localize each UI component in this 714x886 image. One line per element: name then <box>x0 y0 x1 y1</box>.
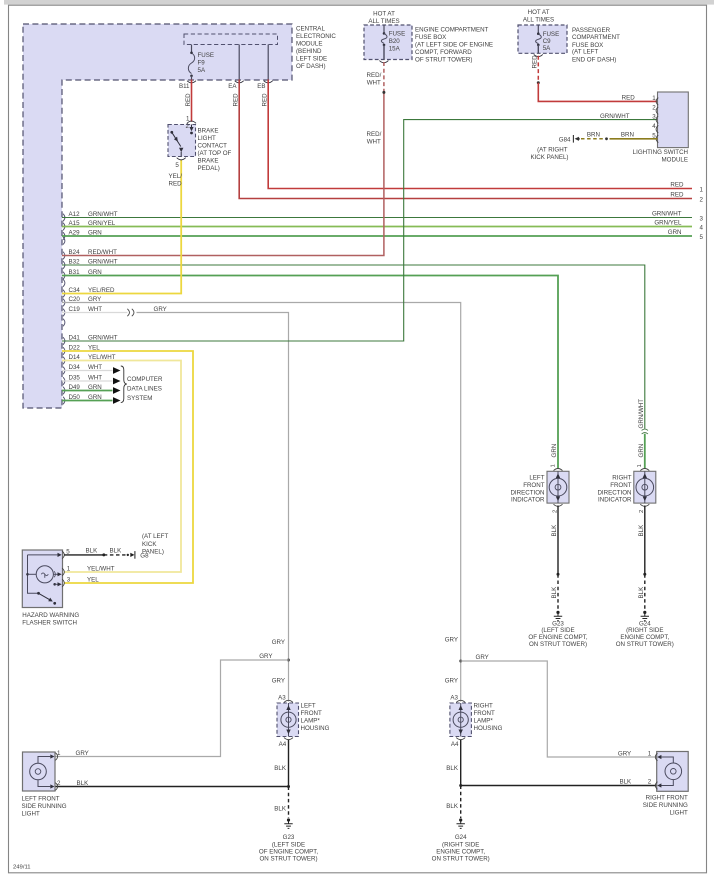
svg-text:FUSE: FUSE <box>543 31 560 38</box>
left front direction indicator name label <box>510 474 545 503</box>
svg-text:RED: RED <box>622 95 636 102</box>
right running light pin 1 arc and labels <box>618 751 658 761</box>
svg-text:LIGHT: LIGHT <box>198 135 216 142</box>
hazard switch indicator lamp <box>26 566 53 583</box>
CEM pin D49 arc <box>63 387 65 395</box>
left running light pin 1 arc and labels <box>55 750 88 760</box>
wire C19 GRY to left front lamp housing <box>137 313 289 702</box>
svg-text:BLK: BLK <box>446 803 459 810</box>
svg-text:YEL/WHT: YEL/WHT <box>88 354 116 361</box>
svg-text:A3: A3 <box>450 695 458 702</box>
wire EB RED down and right to page connector 1 <box>268 80 692 189</box>
svg-text:GRY: GRY <box>272 678 285 685</box>
svg-text:DATA LINES: DATA LINES <box>127 386 162 393</box>
svg-text:BLK: BLK <box>619 779 632 786</box>
right front lamp housing bulb <box>453 703 468 737</box>
svg-text:GRY: GRY <box>476 654 489 661</box>
svg-text:G84: G84 <box>559 136 571 143</box>
wire D41 GRN/WHT to lighting switch module pin 3 <box>62 120 658 341</box>
fuse C9 5A symbol <box>536 25 542 53</box>
svg-text:(LEFT SIDE: (LEFT SIDE <box>272 841 305 848</box>
CEM pin A29 arc <box>63 232 65 240</box>
wire BRN solid from lighting switch pin 5 <box>610 138 658 140</box>
svg-text:D41: D41 <box>69 334 81 341</box>
CEM internal wire to fuse F9 <box>191 45 193 53</box>
wire BLK from left lamp housing <box>56 740 289 787</box>
svg-text:FUSE: FUSE <box>389 31 406 38</box>
svg-text:LEFT: LEFT <box>529 474 544 481</box>
fuse F9 symbol <box>188 52 194 80</box>
svg-text:LIGHT: LIGHT <box>670 810 688 817</box>
right front side running light body <box>657 752 689 792</box>
splice on left indicator BLK <box>557 573 560 576</box>
svg-text:HOT AT: HOT AT <box>528 9 550 16</box>
svg-text:GRN: GRN <box>668 229 682 236</box>
svg-text:EA: EA <box>228 83 237 90</box>
svg-text:FUSE BOX: FUSE BOX <box>415 34 446 41</box>
svg-text:(RIGHT SIDE: (RIGHT SIDE <box>626 627 663 634</box>
svg-text:RED: RED <box>169 180 183 187</box>
svg-text:CENTRAL: CENTRAL <box>296 26 325 33</box>
right front lamp housing body <box>450 703 472 737</box>
passenger compartment fuse box body <box>518 25 567 53</box>
svg-text:OF ENGINE COMPT,: OF ENGINE COMPT, <box>528 634 587 641</box>
svg-text:3: 3 <box>67 577 71 584</box>
ground G24 label (right lamp) <box>432 834 490 862</box>
svg-text:BRAKE: BRAKE <box>198 128 219 135</box>
svg-text:5: 5 <box>700 234 704 241</box>
svg-text:GRN/WHT: GRN/WHT <box>652 211 682 218</box>
wire BLK dashed to G24 (right lamp) <box>460 786 462 819</box>
svg-text:RED/WHT: RED/WHT <box>88 249 117 256</box>
wire D34 arrow <box>113 367 121 374</box>
svg-text:RED: RED <box>262 93 269 107</box>
pin B11 exit arc <box>187 81 196 83</box>
svg-text:ENGINE COMPT,: ENGINE COMPT, <box>436 849 485 856</box>
svg-text:PASSENGER: PASSENGER <box>572 27 611 34</box>
computer data lines brace <box>121 366 127 403</box>
wire break symbol (right indicator feed) <box>642 429 648 434</box>
svg-text:COMPUTER: COMPUTER <box>127 376 163 383</box>
svg-text:BLK: BLK <box>551 586 558 599</box>
ground G24 label (right indicator) <box>616 621 674 648</box>
svg-text:ELECTRONIC: ELECTRONIC <box>296 33 336 40</box>
left front lamp housing bulb <box>281 703 296 737</box>
svg-text:C20: C20 <box>69 296 81 303</box>
lighting switch pin 4 <box>652 123 658 133</box>
svg-text:1: 1 <box>550 464 556 467</box>
brake light contact switch arm <box>170 131 183 157</box>
wire D50 arrow <box>113 397 121 404</box>
svg-text:BLK: BLK <box>86 548 99 555</box>
hazard switch arm <box>37 592 56 605</box>
brake light contact name label <box>198 128 232 173</box>
svg-text:A12: A12 <box>69 211 81 218</box>
fuse C9 value label <box>543 31 560 52</box>
splice on right lamp housing BLK <box>459 784 462 787</box>
splice on hazard BLK wire <box>102 553 105 556</box>
svg-text:BLK: BLK <box>274 805 287 812</box>
lighting switch module body <box>658 92 689 148</box>
svg-text:PEDAL): PEDAL) <box>198 165 220 172</box>
svg-text:YEL/WHT: YEL/WHT <box>87 565 115 572</box>
svg-text:GRN/WHT: GRN/WHT <box>638 399 645 429</box>
svg-text:RED/: RED/ <box>367 72 382 79</box>
wire BLK from right lamp housing <box>461 740 657 786</box>
CEM pin D34 arc <box>63 367 65 375</box>
svg-text:FRONT: FRONT <box>301 710 323 717</box>
CEM pin B24 arc <box>63 252 65 260</box>
svg-text:1: 1 <box>637 464 643 467</box>
svg-text:INDICATOR: INDICATOR <box>598 497 632 504</box>
svg-text:GRN/YEL: GRN/YEL <box>88 220 116 227</box>
right front direction indicator pin 1 entry arc <box>637 464 649 470</box>
computer data lines system label <box>127 376 163 402</box>
svg-text:EB: EB <box>257 83 265 90</box>
wire D49 GRN data line <box>62 390 113 392</box>
wire B32 GRN/WHT to right front direction indicator <box>62 265 645 429</box>
svg-text:2: 2 <box>700 196 704 203</box>
wire C34 YEL/RED from brake light contact <box>62 160 181 294</box>
svg-text:GRY: GRY <box>618 751 631 758</box>
wire RED to lighting switch module pin 1 <box>538 83 657 102</box>
hot at all times label (passenger fuse box) <box>523 9 554 24</box>
svg-text:LAMP*: LAMP* <box>474 718 494 725</box>
svg-text:ON STRUT TOWER): ON STRUT TOWER) <box>529 641 587 648</box>
splice on BRN wire <box>605 137 608 140</box>
svg-text:G23: G23 <box>283 834 295 841</box>
svg-text:15A: 15A <box>389 45 401 52</box>
CEM pin D14 arc <box>63 357 65 365</box>
lighting switch pin 3 <box>652 113 658 123</box>
wire RED dashed from passenger fuse box <box>537 56 539 83</box>
hazard switch pin 1 arc and number <box>62 566 71 576</box>
right front direction indicator bulb <box>636 471 654 503</box>
CEM unused pin arc C <box>63 319 65 327</box>
splice on RED wire <box>537 81 540 84</box>
svg-text:GRY: GRY <box>88 296 101 303</box>
fuse B20 15A symbol <box>381 25 387 60</box>
svg-text:RED: RED <box>532 55 539 69</box>
svg-text:5: 5 <box>175 162 179 169</box>
wire D34 WHT data line <box>62 370 113 372</box>
right front lamp housing pin A4 <box>451 738 465 748</box>
svg-text:G8: G8 <box>140 553 149 560</box>
wire BLK from left indicator <box>557 506 559 575</box>
wire BLK dashed to G24 <box>644 574 646 610</box>
left front direction indicator pin 2 exit arc <box>552 504 562 513</box>
lighting switch pin 5 <box>652 133 658 143</box>
svg-text:LIGHTING SWITCH: LIGHTING SWITCH <box>633 149 688 156</box>
wire GRN to right indicator <box>644 434 646 469</box>
lighting switch pin 2 <box>652 104 658 114</box>
svg-text:GRY: GRY <box>445 637 458 644</box>
svg-text:ON STRUT TOWER): ON STRUT TOWER) <box>259 856 317 863</box>
wire C19 WHT stub <box>62 312 128 314</box>
svg-text:YEL/RED: YEL/RED <box>88 287 115 294</box>
svg-text:C19: C19 <box>69 306 81 313</box>
svg-text:INDICATOR: INDICATOR <box>511 497 545 504</box>
svg-text:1: 1 <box>67 566 71 573</box>
ground connector G84 symbol <box>573 135 579 143</box>
svg-text:A3: A3 <box>278 695 286 702</box>
CEM unused pin arc B <box>63 279 65 287</box>
svg-text:COMPT, FORWARD: COMPT, FORWARD <box>415 49 472 56</box>
svg-text:B11: B11 <box>179 83 190 90</box>
svg-text:ON STRUT TOWER): ON STRUT TOWER) <box>616 641 674 648</box>
svg-text:5A: 5A <box>198 67 206 74</box>
svg-text:FRONT: FRONT <box>610 482 632 489</box>
pin EA exit arc <box>235 81 244 83</box>
wire A12 GRN/WHT to page connector 3 <box>62 217 692 219</box>
svg-text:2: 2 <box>186 123 190 130</box>
pin EB exit arc <box>264 81 273 83</box>
svg-text:BRAKE: BRAKE <box>198 158 219 165</box>
svg-text:CONTACT: CONTACT <box>198 143 228 150</box>
wire A15 GRN/YEL to page connector 4 <box>62 226 692 228</box>
CEM internal wire EA <box>238 45 240 80</box>
svg-text:FRONT: FRONT <box>474 710 496 717</box>
svg-text:ALL TIMES: ALL TIMES <box>523 16 554 23</box>
ground G23 label (left indicator) <box>528 621 587 648</box>
svg-text:ON STRUT TOWER): ON STRUT TOWER) <box>432 856 490 863</box>
svg-text:4: 4 <box>652 123 656 130</box>
svg-text:BLK: BLK <box>638 586 645 599</box>
left front side running light body <box>23 752 56 791</box>
wire BLK dashed to G23 (left lamp) <box>288 787 290 819</box>
svg-text:(RIGHT SIDE: (RIGHT SIDE <box>442 841 479 848</box>
engine compartment fuse box body <box>364 25 412 60</box>
svg-text:1: 1 <box>700 186 704 193</box>
svg-text:LEFT SIDE: LEFT SIDE <box>296 56 327 63</box>
svg-text:MODULE: MODULE <box>296 41 322 48</box>
svg-text:BLK: BLK <box>446 765 459 772</box>
svg-text:(AT RIGHT: (AT RIGHT <box>537 147 568 154</box>
CEM pin C20 arc <box>63 299 65 307</box>
svg-text:GRY: GRY <box>445 678 458 685</box>
lighting switch module name label <box>633 149 688 164</box>
right front direction indicator body <box>634 471 656 503</box>
splice on C20 GRY wire (right branch) <box>459 660 462 663</box>
svg-text:GRN/YEL: GRN/YEL <box>654 220 682 227</box>
splice on RED/WHT wire <box>382 91 385 94</box>
svg-text:A4: A4 <box>451 741 459 748</box>
svg-text:(LEFT SIDE: (LEFT SIDE <box>541 627 574 634</box>
svg-text:FLASHER SWITCH: FLASHER SWITCH <box>22 619 77 626</box>
ground G24 symbol (right lamp) <box>457 818 465 828</box>
right front direction indicator name label <box>597 474 632 503</box>
svg-text:ALL TIMES: ALL TIMES <box>368 18 399 25</box>
right front direction indicator pin 2 exit arc <box>639 504 649 513</box>
wire D50 GRN data line <box>62 400 113 402</box>
hazard switch pin 3 arc and number <box>62 577 71 587</box>
svg-text:GRN: GRN <box>88 269 102 276</box>
engine fuse box exit arc <box>379 61 388 63</box>
CEM pin C19 arc <box>63 309 65 317</box>
brake light contact pin 2 internal lead <box>189 125 193 135</box>
left front direction indicator body <box>547 471 569 503</box>
left front lamp housing name label <box>301 703 330 733</box>
CEM pin B31 arc <box>63 272 65 280</box>
svg-text:RED/: RED/ <box>367 131 382 138</box>
svg-text:GRN/WHT: GRN/WHT <box>88 334 118 341</box>
svg-text:SYSTEM: SYSTEM <box>127 395 152 402</box>
passenger compartment fuse box name label <box>572 27 620 64</box>
svg-text:GRN/WHT: GRN/WHT <box>88 211 118 218</box>
svg-text:2: 2 <box>57 780 61 787</box>
svg-text:BLK: BLK <box>638 524 645 537</box>
svg-text:GRY: GRY <box>259 653 272 660</box>
svg-text:3: 3 <box>700 215 704 222</box>
wire BLK from hazard switch pin 5 <box>64 554 104 556</box>
CEM pin A12 arc <box>63 214 65 222</box>
svg-text:BLK: BLK <box>274 765 287 772</box>
svg-text:LAMP*: LAMP* <box>301 718 321 725</box>
svg-text:BLK: BLK <box>77 780 90 787</box>
CEM unused pin arc A <box>63 237 65 245</box>
svg-text:GRN: GRN <box>551 444 558 458</box>
svg-text:SIDE RUNNING: SIDE RUNNING <box>22 803 67 810</box>
svg-text:BRN: BRN <box>587 132 600 139</box>
svg-text:HOT AT: HOT AT <box>373 10 395 17</box>
svg-text:HAZARD WARNING: HAZARD WARNING <box>22 612 79 619</box>
svg-text:249/11: 249/11 <box>13 865 31 871</box>
wire GRY branch to left running light <box>56 660 289 757</box>
wire BRN dashed segment <box>581 138 605 140</box>
CEM pin A15 arc <box>63 223 65 231</box>
passenger fuse box exit arc <box>534 54 543 56</box>
wire label RED/WHT lower <box>367 131 382 146</box>
brake contact pin 2 entry arc <box>187 121 196 123</box>
svg-text:FUSE: FUSE <box>198 52 215 59</box>
brake light contact pin 5 exit arc <box>177 158 186 160</box>
left front side running light bulb <box>30 754 55 788</box>
left front lamp housing pin A4 <box>279 738 293 748</box>
wire D35 arrow <box>113 378 121 385</box>
svg-text:END OF DASH): END OF DASH) <box>572 56 616 63</box>
svg-text:(AT TOP OF: (AT TOP OF <box>198 150 232 157</box>
right running light pin 2 arc and labels <box>619 779 657 790</box>
fuse B20 value label <box>389 31 406 53</box>
svg-text:YEL: YEL <box>88 344 100 351</box>
svg-text:2: 2 <box>652 104 656 111</box>
svg-text:(AT LEFT: (AT LEFT <box>142 533 168 540</box>
svg-text:GRN: GRN <box>88 384 102 391</box>
svg-text:GRN: GRN <box>88 394 102 401</box>
svg-text:RED: RED <box>185 93 192 107</box>
svg-text:YEL: YEL <box>87 576 99 583</box>
wire B24 RED/WHT to engine compartment fuse box <box>62 92 384 255</box>
svg-text:KICK: KICK <box>142 541 157 548</box>
svg-text:RIGHT: RIGHT <box>612 474 631 481</box>
svg-text:LEFT: LEFT <box>301 703 316 710</box>
wire D35 WHT data line <box>62 380 113 382</box>
svg-text:WHT: WHT <box>88 374 102 381</box>
svg-text:LEFT FRONT: LEFT FRONT <box>22 795 60 802</box>
svg-text:WHT: WHT <box>367 139 381 146</box>
wire RED/WHT dashed from engine fuse box <box>383 62 385 92</box>
svg-text:KICK PANEL): KICK PANEL) <box>530 154 568 161</box>
splice on C19 GRY wire (left branch) <box>287 659 290 662</box>
svg-text:D34: D34 <box>69 364 81 371</box>
svg-text:BRN: BRN <box>621 132 634 139</box>
wire C19 break symbol <box>127 309 134 316</box>
wire RED from B11 to brake light contact <box>191 80 193 122</box>
svg-text:B32: B32 <box>69 258 81 265</box>
wire label YEL/RED below brake contact <box>169 173 183 188</box>
svg-text:GRY: GRY <box>154 306 167 313</box>
left running light pin 2 arc and labels <box>55 780 89 790</box>
hazard warning flasher switch name label <box>22 612 79 627</box>
svg-text:GRN: GRN <box>88 229 102 236</box>
wire BLK dashed to G8 <box>104 554 126 556</box>
left front side running light name label <box>22 795 67 817</box>
top grey band <box>4 0 714 5</box>
CEM pin D35 arc <box>63 377 65 385</box>
svg-text:HOUSING: HOUSING <box>474 725 503 732</box>
wire BLK dashed to G23 <box>557 574 559 610</box>
svg-text:MODULE: MODULE <box>662 156 688 163</box>
svg-text:WHT: WHT <box>88 306 102 313</box>
svg-text:G24: G24 <box>455 834 467 841</box>
central electronic module CEM body <box>23 24 292 408</box>
right front side running light name label <box>643 795 688 817</box>
svg-text:D35: D35 <box>69 374 81 381</box>
wire D14 YEL/WHT to hazard switch pin 1 <box>62 361 181 573</box>
ground G24 symbol (right indicator) <box>641 611 649 621</box>
svg-text:RIGHT FRONT: RIGHT FRONT <box>646 795 688 802</box>
hazard warning flasher switch body <box>22 550 62 608</box>
svg-text:1: 1 <box>652 95 656 102</box>
CEM pin C34 arc <box>63 290 65 298</box>
svg-text:3: 3 <box>652 113 656 120</box>
wire label RED/WHT upper <box>367 72 382 87</box>
ground G23 symbol (left indicator) <box>554 611 562 621</box>
svg-text:DIRECTION: DIRECTION <box>510 489 544 496</box>
svg-text:RED: RED <box>233 93 240 107</box>
svg-text:WHT: WHT <box>88 364 102 371</box>
ground G23 label (left lamp) <box>259 834 318 862</box>
left front direction indicator pin 1 entry arc <box>550 464 562 470</box>
left front lamp housing pin A3 <box>278 695 293 703</box>
right front lamp housing pin A3 <box>450 695 465 703</box>
CEM internal wire EB <box>267 45 269 80</box>
hazard switch internal pin 3 lead <box>53 582 61 586</box>
svg-text:OF STRUT TOWER): OF STRUT TOWER) <box>415 57 472 64</box>
svg-text:COMPARTMENT: COMPARTMENT <box>572 34 620 41</box>
svg-text:1: 1 <box>57 750 61 757</box>
ground G84 label <box>530 136 571 161</box>
svg-text:A4: A4 <box>279 741 287 748</box>
CEM pin D50 arc <box>63 397 65 405</box>
svg-text:GRY: GRY <box>272 639 285 646</box>
wire EA RED down and right to page connector 2 <box>239 80 692 199</box>
engine compartment fuse box name label <box>415 27 493 64</box>
svg-text:OF DASH): OF DASH) <box>296 63 326 70</box>
splice on left lamp housing BLK <box>287 785 290 788</box>
svg-text:B20: B20 <box>389 38 401 45</box>
svg-text:GRN/WHT: GRN/WHT <box>88 258 118 265</box>
svg-text:LIGHT: LIGHT <box>22 810 40 817</box>
CEM pin B32 arc <box>63 261 65 269</box>
svg-text:1: 1 <box>648 751 652 758</box>
splice on right indicator BLK <box>643 573 646 576</box>
wire C20 GRY to right front lamp housing <box>62 303 461 702</box>
svg-text:BLK: BLK <box>110 548 123 555</box>
ground G23 symbol (left lamp) <box>284 818 292 828</box>
svg-text:FRONT: FRONT <box>523 482 545 489</box>
svg-text:GRN/WHT: GRN/WHT <box>600 113 630 120</box>
